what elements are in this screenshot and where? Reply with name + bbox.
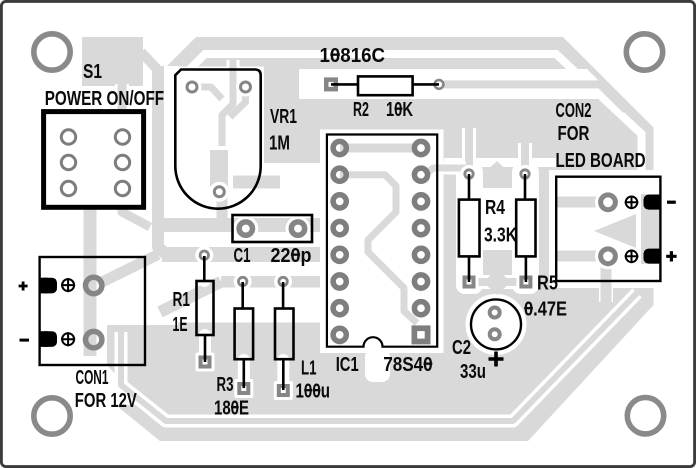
resistor R3 [235,282,254,388]
R4 bottom square pad [460,273,479,292]
L1 top pad [274,273,292,291]
IC1 interior traces [340,148,466,323]
mounting hole TL [34,34,70,70]
lead clearance channels [204,251,283,389]
black component outlines [40,70,661,391]
mounting hole TR [626,34,662,70]
potentiometer VR1 [175,70,260,209]
copper pour main octagon [82,37,654,441]
punch R5 column [512,163,539,294]
trace CON1 to band2 [98,255,158,285]
punch left of VR1 [150,66,178,325]
punch C1 clearance [229,211,316,246]
CON1 terminal - row1 [40,278,76,294]
slashed zero bars [231,54,533,409]
CON2 terminal row1 [625,195,661,210]
R5 top pad [516,165,534,183]
punch VR1 outline clearance [172,67,264,213]
C2 pads [490,308,500,318]
R3 bottom square pad [234,379,253,398]
svg-text:POWER ON/OFF: POWER ON/OFF [45,87,164,110]
svg-text:10816C: 10816C [320,44,386,67]
mounting hole BL [34,398,70,434]
resistor R1 [197,256,214,362]
channel top edge + chamfer [176,54,642,172]
C1 pads [233,216,258,241]
white clearance channels along board edge trace [176,54,642,172]
punch below IC notch [365,349,390,382]
punch middle region [178,163,320,323]
svg-text:IC1: IC1 [336,353,359,376]
resistor R5 [516,174,535,282]
punch band above R4 R5 [444,158,556,167]
punch CON1 upper [36,250,149,325]
trace above R4 [465,128,473,172]
gray traces with white clearance outlines [90,52,660,356]
CON1 minus sign [20,339,30,342]
IC1 outline with notch [327,135,437,347]
svg-text:1E: 1E [173,313,188,336]
punch CON2 region [549,170,668,288]
switch S1 [44,112,144,208]
inductor L1 [275,282,294,390]
band2 [162,247,320,262]
svg-text:R2: R2 [353,98,369,121]
R3 top pad [234,273,252,291]
svg-text:FOR: FOR [558,122,590,145]
svg-text:R1: R1 [173,288,191,311]
svg-text:R4: R4 [485,196,505,219]
svg-text:L1: L1 [301,357,317,380]
CON2 plus sign [666,251,676,261]
IC1 pin1 square [412,325,431,344]
capacitor C1 [233,215,313,242]
svg-text:C1: C1 [234,244,251,267]
mounting hole BR [627,398,663,434]
resistor R2 [331,76,439,95]
white clearance punches [36,66,668,405]
L1 bottom square pad [274,381,293,400]
punch C2 circle clearance [466,294,527,355]
punch FOR12V corner [107,365,143,405]
svg-text:R5: R5 [537,272,558,295]
edge trace along bottom with clearance sandwich [121,293,637,421]
trace R2 to edge [444,84,626,110]
R4 top pad [460,165,478,183]
trace y182 [233,176,280,189]
R5 bottom square pad [516,273,535,292]
CON2 interior gray [556,194,660,264]
svg-text:LED BOARD: LED BOARD [556,149,646,172]
diamonds between R4 R5 pads [483,161,511,187]
svg-text:CON1: CON1 [76,366,109,389]
trace patch to S1 top [118,84,127,114]
trace S1 to CON1 [84,205,97,356]
trace between R4 R5 bottom pads [462,278,532,286]
CON1 pads [86,277,102,293]
svg-text:FOR 12V: FOR 12V [75,389,137,412]
CON2 minus sign [667,201,676,204]
svg-text:33u: 33u [460,360,486,383]
svg-text:CON2: CON2 [556,99,592,122]
svg-text:S1: S1 [83,60,102,83]
VR1 interior traces [196,60,246,186]
edge strip left of VR1 [158,66,167,255]
punch R4 column [456,163,483,294]
CON1 plus sign [19,282,28,291]
trace below S1 [122,205,150,227]
svg-text:R3: R3 [217,373,234,396]
patch connector [141,52,157,69]
trace VR1 pad3 down [217,194,228,222]
svg-text:3.3K: 3.3K [484,224,517,247]
trace CON2 down [601,258,612,302]
R1 top pad [195,246,213,264]
punch between R4 R5 [480,188,518,250]
R2 pads [321,74,443,94]
label C2 plus [489,352,504,367]
pour patch behind S1 label [82,37,143,86]
connector CON2 [556,177,660,281]
svg-text:C2: C2 [452,336,471,359]
CON1 terminal - row2 [40,331,76,347]
pads layer [34,34,664,434]
svg-text:1M: 1M [269,132,290,155]
svg-text:VR1: VR1 [270,105,297,128]
punch IC1 interior+clearance [320,130,444,354]
connector CON1 [40,257,145,365]
band3 [221,276,320,288]
VR1 pads [183,78,256,202]
trace above R5 [521,143,529,172]
CON2 pads [595,189,621,215]
S1 pads [112,126,134,200]
R1 bottom square pad [196,353,215,372]
resistor R4 [459,174,480,282]
CON2 terminal row2 [625,249,661,264]
capacitor C2 [471,299,521,349]
band1 [156,218,320,232]
trace band3 to leg [160,282,221,312]
punch R2 white band [299,69,575,99]
IC1 pins [333,141,428,341]
